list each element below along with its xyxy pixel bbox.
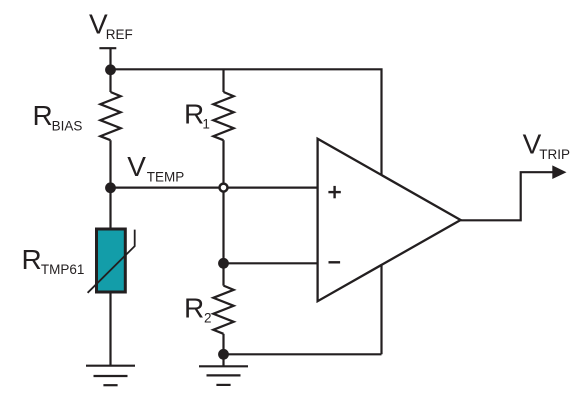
svg-text:R: R: [33, 100, 53, 131]
svg-text:V: V: [127, 151, 146, 182]
svg-text:R: R: [184, 98, 204, 129]
svg-text:TRIP: TRIP: [539, 147, 570, 162]
svg-text:TEMP: TEMP: [147, 170, 185, 185]
svg-text:R: R: [184, 292, 204, 323]
svg-text:BIAS: BIAS: [52, 119, 83, 134]
svg-text:R: R: [22, 244, 42, 275]
svg-text:2: 2: [204, 310, 212, 325]
svg-text:REF: REF: [106, 27, 133, 42]
svg-text:TMP61: TMP61: [41, 262, 85, 277]
svg-text:1: 1: [202, 117, 210, 132]
